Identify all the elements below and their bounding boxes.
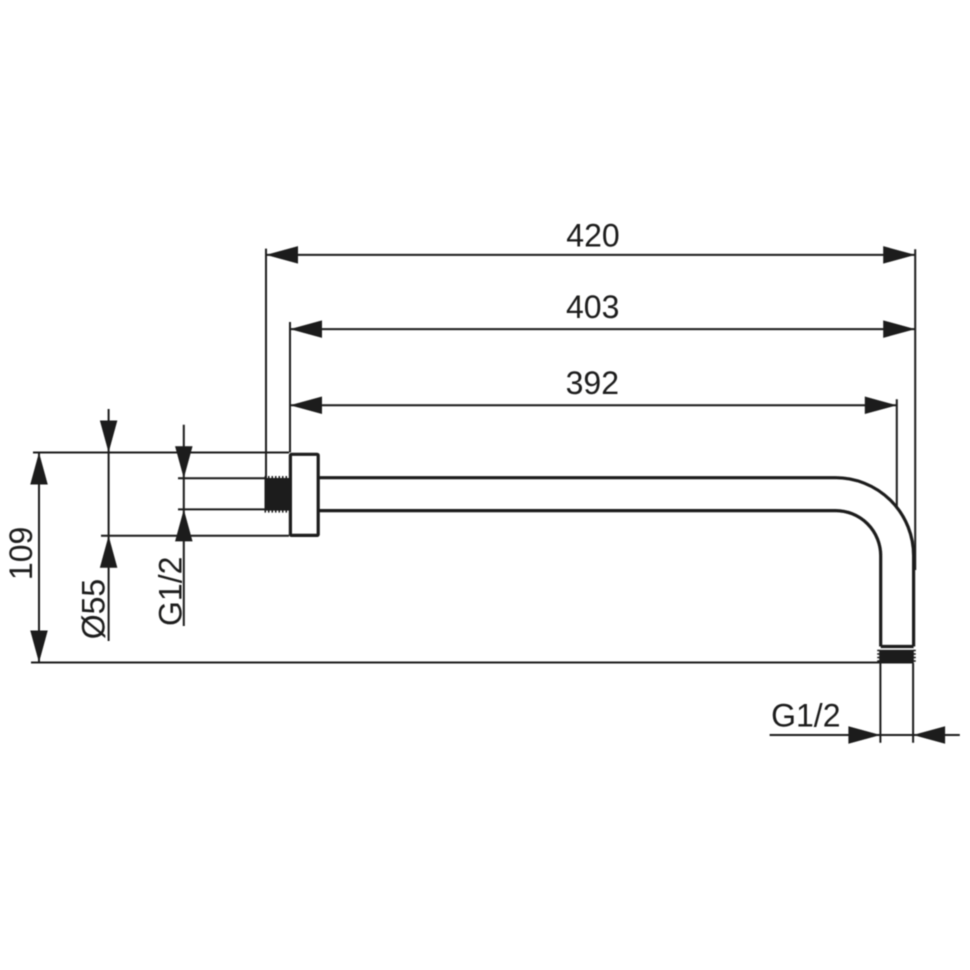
svg-text:G1/2: G1/2: [152, 557, 188, 626]
svg-text:109: 109: [3, 527, 39, 580]
svg-text:420: 420: [566, 218, 619, 254]
svg-text:403: 403: [566, 289, 619, 325]
svg-text:Ø55: Ø55: [75, 579, 111, 639]
svg-text:392: 392: [566, 365, 619, 401]
svg-text:G1/2: G1/2: [771, 698, 840, 734]
